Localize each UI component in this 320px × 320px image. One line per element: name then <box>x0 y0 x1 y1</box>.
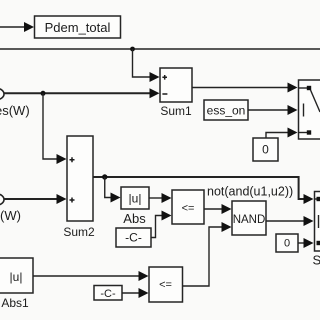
svg-text:<=: <= <box>159 279 172 291</box>
wire -C- to RelOp1 input 2 <box>122 292 139 294</box>
wire 0 to Switch1 port 3 <box>298 242 304 244</box>
svg-text:not(and(u1,u2)): not(and(u1,u2)) <box>207 185 293 199</box>
svg-text:Sum2: Sum2 <box>63 225 95 239</box>
svg-text:|u|: |u| <box>10 270 23 284</box>
svg-text:-C-: -C- <box>100 288 116 300</box>
switch block Switch (right, cut off) <box>299 80 320 139</box>
wire circle1 to Sum1 input 2 <box>4 92 150 94</box>
wire J2 to Sum2 input 1 <box>43 93 57 159</box>
svg-text:Pdem_total: Pdem_total <box>45 20 111 35</box>
svg-text:es(W): es(W) <box>0 103 30 118</box>
wire J1 to Sum1 input 1 <box>133 49 151 77</box>
node junction J2 <box>41 91 46 96</box>
svg-text:Abs: Abs <box>123 211 146 226</box>
wire ess_on to Switch port 2 <box>248 109 288 111</box>
switch block Switch1 (far right, cut off) <box>315 192 320 252</box>
wire Abs1 out to RelOp1 input 1 <box>33 275 139 277</box>
svg-text:Sum1: Sum1 <box>160 104 192 118</box>
wire -C- to RelOp input 2 <box>151 216 162 238</box>
svg-text:ess_on: ess_on <box>207 104 246 118</box>
wire 0 to Switch port 3 <box>266 133 288 139</box>
block Pdem_total <box>35 16 121 38</box>
svg-text:0: 0 <box>262 143 269 157</box>
wire bus y=49 <box>0 48 320 50</box>
wire Abs out to RelOp input 1 <box>149 197 162 199</box>
svg-text:Sw: Sw <box>313 253 320 268</box>
wire Sum1 out to Switch port 1 <box>192 87 288 89</box>
relational operator block <= (lower) <box>149 267 183 302</box>
constant block 0 (lower) <box>276 234 298 252</box>
svg-text:NAND: NAND <box>233 214 266 226</box>
logic block NAND <box>232 201 266 235</box>
node junction J1 <box>130 47 135 52</box>
svg-text:<=: <= <box>182 203 195 215</box>
svg-text:Abs1: Abs1 <box>1 296 29 310</box>
svg-text:(W): (W) <box>0 208 21 223</box>
wire NAND out to Switch1 port 2 <box>266 220 304 222</box>
relational operator block <= (upper) <box>172 190 204 224</box>
block ess_on <box>204 100 248 120</box>
svg-text:-C-: -C- <box>125 231 142 245</box>
wire RelOp1 out to NAND input 2 <box>183 227 223 286</box>
wire Sum2 out to Switch1 port1 (long, with elbow) <box>93 177 304 199</box>
svg-text:0: 0 <box>284 238 290 250</box>
svg-text:|u|: |u| <box>129 192 142 206</box>
constant block -C- (lower) <box>94 286 122 301</box>
node junction J3 <box>102 174 107 179</box>
inport circle 2 <box>0 194 4 205</box>
sum block Sum1 <box>160 68 192 102</box>
wire J3 down to Abs <box>105 177 111 198</box>
inport circle 1 <box>0 89 4 100</box>
wire RelOp out to NAND input 1 <box>204 208 222 210</box>
wire circle2 to Sum2 input 2 <box>4 198 57 200</box>
sum block Sum2 <box>67 136 93 221</box>
constant block 0 (upper) <box>253 138 278 161</box>
abs block |u| Abs1 (bottom left, cut off) <box>0 258 33 293</box>
abs block |u| <box>121 187 149 209</box>
wire into Pdem_total <box>0 26 25 28</box>
constant block -C- (upper) <box>116 228 151 247</box>
